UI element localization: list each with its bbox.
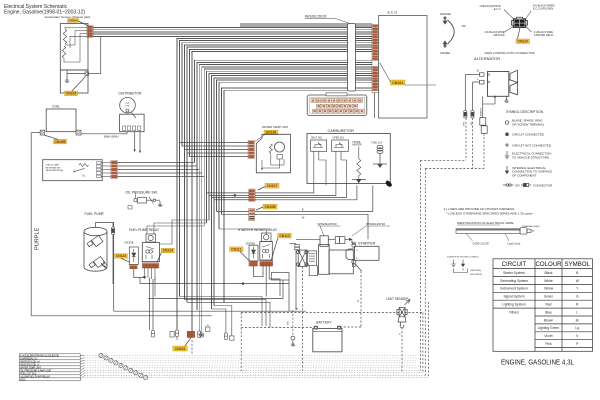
internal ground fuel cut [373,164,387,167]
wire alternator ground stub [494,96,496,104]
svg-text:E.C.U (GROUND): E.C.U (GROUND) [533,8,553,11]
battery box [313,329,342,352]
connector 30-pin (harness plug) [307,93,366,116]
wire sir drop a [265,266,267,297]
starter inhibit relay tab [262,233,272,242]
svg-text:B/W(+) B/W(-): B/W(+) B/W(-) [104,135,119,138]
shut solenoid box [311,140,327,151]
distributor cap circle [120,97,136,113]
wire left rail vertical [30,133,32,316]
svg-text:CHECK LAMP: CHECK LAMP [46,164,60,167]
svg-text:CN104: CN104 [69,18,78,22]
svg-text:IDENTIFICATION OF ELECTRICAL W: IDENTIFICATION OF ELECTRICAL WIRE [457,221,514,225]
terminal circle [86,73,88,75]
svg-text:GND: GND [286,321,288,326]
wire to fuse [296,238,320,240]
wire bottom run d [212,309,226,333]
wire wtu internal 2 [262,159,280,168]
svg-text:Others: Others [509,310,519,314]
wire coil to distributor [81,133,127,135]
wire distributor drop 2 [139,132,141,151]
connector label CN10B [54,139,67,144]
svg-text:WATER TEMP UNIT: WATER TEMP UNIT [20,366,42,369]
svg-text:G: G [576,295,579,299]
wire accel bottom tap [64,34,87,63]
svg-text:CIRCUIT NOT CONNECTED: CIRCUIT NOT CONNECTED [512,143,552,147]
svg-text:CIRCUIT CONNECTED: CIRCUIT CONNECTED [512,133,545,137]
svg-text:Accelerator Sensor (chassis pa: Accelerator Sensor (chassis part) [45,15,91,19]
terminal frame ground [443,41,447,47]
svg-text:FUEL PUMP: FUEL PUMP [85,212,105,216]
coil box [46,109,76,132]
symbol connector pair [503,184,514,186]
fusible link body [319,245,330,275]
wire pointer CN106 [255,133,268,142]
svg-text:E.C.U: E.C.U [494,8,501,11]
wire accel wiper h [75,30,87,32]
starter relay small box [307,251,316,266]
wire pointer [504,10,513,19]
resistor check lamp [79,164,89,167]
wires check lamp connector [101,162,111,164]
connector label CN107 [265,183,279,188]
wire pointer CN103 [72,77,86,92]
svg-text:W/S20L26100: W/S20L26100 [305,15,327,19]
wire connector to starter [345,238,352,240]
wire open sol drop 2 [340,151,342,160]
svg-text:BATTERY: BATTERY [316,320,332,324]
fuel pump motor elements [87,236,105,268]
svg-text:DIODE: DIODE [125,240,134,244]
wire open sol 2 drop [341,160,347,185]
wire carb fuel cut return [255,185,357,199]
svg-text:COLOUR: COLOUR [535,261,562,268]
rectifier / diode pack [297,250,309,267]
wire diode loop [134,269,145,278]
accelerator sensor box lower [60,70,88,93]
small box terminal 2 [230,336,234,340]
wire carb open sol return [255,185,336,195]
wire pointer CN107 [258,187,265,191]
connector W/S20L26100 (white inline) [348,24,356,92]
wire inner frame vertical [113,222,115,311]
internal ground choke heater [352,179,366,182]
svg-text:CN10B: CN10B [264,205,276,209]
svg-text:DISTRIBUTOR: DISTRIBUTOR [119,91,142,95]
wire dashed mid horizontal [241,312,423,314]
svg-text:OF COMPONENT: OF COMPONENT [512,174,537,178]
wire fuel pump top [95,222,97,227]
wire alternator B drop [464,75,466,111]
wire accel lower run [89,73,101,75]
wire diode pack bottom [309,266,317,276]
wire shut sol drop 2 [318,151,320,160]
svg-text:CN111: CN111 [231,247,241,251]
symbol internal connection [505,166,508,174]
svg-text:M6 SCREW: M6 SCREW [470,274,483,276]
pointer lead circuit [505,233,509,241]
wire accel wiper v [74,31,76,46]
terminal starter S [352,243,356,247]
alternator box [488,72,509,97]
resistor water temp [269,144,272,153]
wire dashed ground screw [292,310,294,336]
wire dashed horizontal b [425,168,484,170]
terminal circle alternator bottom [494,96,496,98]
wire pointer to connector [335,18,350,23]
water temp unit box [256,134,290,173]
ground alternator [504,96,508,102]
wire relay feed b [154,223,207,234]
oil pressure switch symbol [134,197,160,204]
wire starter area box right [295,244,297,310]
distributor pins [123,126,126,131]
svg-text:ENGINE: ENGINE [440,12,451,16]
svg-text:(GROUND): (GROUND) [470,270,481,272]
wire shut sol drop [313,151,315,185]
switch check lamp [74,168,85,171]
svg-text:OR SCREW TERMINAL: OR SCREW TERMINAL [512,123,545,127]
wire coil to left rail [31,132,40,134]
connector CN106 (orange pins) [248,141,254,159]
ground fuel pump [101,262,108,269]
wire pointer CN114 [157,253,161,262]
svg-text:ALTERNATOR: ALTERNATOR [474,56,500,61]
svg-text:Lighting System: Lighting System [502,303,526,307]
wire diode 2 loop [254,266,264,277]
connector small left [295,245,300,250]
terminal alternator B [480,73,485,77]
svg-text:1-ACCELERATOR(SW) & SOLENOID: 1-ACCELERATOR(SW) & SOLENOID [20,354,59,357]
fuel pump relay body [142,243,159,262]
svg-text:VIEW LOOKING INTO CONNECTOR: VIEW LOOKING INTO CONNECTOR [484,51,535,55]
wires fuel pump relay drops [144,268,146,276]
svg-text:WATER TEMP UNIT: WATER TEMP UNIT [262,125,289,129]
fuel pump cylinder [84,227,107,271]
oil pressure bulb [128,206,132,210]
svg-text:CN114: CN114 [163,249,173,253]
svg-text:COIL: COIL [52,104,60,108]
table circuit colour symbol [493,259,593,352]
wire alternator L drop [472,82,474,111]
connector inline b [340,237,345,244]
terminal engine ground [443,17,447,24]
wire alternator L [473,81,480,83]
svg-text:Lead Circuit: Lead Circuit [508,242,521,245]
wire sir drop b [269,266,280,296]
svg-text:Brown: Brown [544,318,554,322]
wire S terminal stub [351,239,353,243]
arc OR selector [448,20,455,44]
svg-text:CORD COLOR: CORD COLOR [473,242,489,245]
connector CN101 (ECU pin strip) [372,25,378,93]
wire distributor link [131,112,136,118]
wire alternator body drop [482,96,484,117]
water temp element [277,155,282,160]
connector label CN106 [264,130,278,135]
carburetor corner blob [386,180,393,187]
connector label CN115 [115,254,128,259]
connector check lamp (orange) [111,161,118,179]
svg-text:FRAME: FRAME [440,51,450,55]
svg-text:FUEL PUMP RELAY: FUEL PUMP RELAY [129,228,160,232]
svg-text:CN103: CN103 [175,347,186,351]
terminal alternator L [480,80,485,84]
svg-text:ILLUMI(FUEL PUMP RELAY): ILLUMI(FUEL PUMP RELAY) [20,375,50,378]
wire dashed alternator L down [472,118,474,169]
svg-text:OIL PRESSURE (LAMP) UNIT: OIL PRESSURE (LAMP) UNIT [20,369,52,372]
alternator pulley [510,70,518,95]
connector label CN104 [68,18,79,22]
terminal screw [200,333,204,337]
wire dashed unit sender down [401,328,403,374]
svg-text:STARTER: STARTER [358,242,376,246]
water temp sender circle [275,142,285,152]
wire alternator shaft [509,79,510,81]
svg-text:Signal System: Signal System [503,295,524,299]
svg-text:ENGINE, GASOLINE 4,3L: ENGINE, GASOLINE 4,3L [501,360,574,367]
wire dashed vertical b [424,169,426,376]
svg-text:FUEL CUT SOL: FUEL CUT SOL [20,373,37,375]
starter solenoid box [329,250,353,274]
connector CN107 (orange pins) [249,189,255,201]
wire sir feed [219,229,266,234]
svg-text:IGNITION COIL (+): IGNITION COIL (+) [20,361,40,363]
wire accel internal [64,28,66,30]
wire distributor drop 1 [134,132,136,150]
pointer cord color [466,233,473,241]
wire bottom run e [214,306,232,336]
svg-text:CN103: CN103 [66,92,77,96]
connector pill c [198,331,201,338]
svg-text:Lg: Lg [575,326,579,330]
svg-text:Red: Red [545,303,551,307]
distributor body box [120,114,145,132]
wire pointer CN110 [518,28,521,39]
legend dotted rows and circles [85,355,99,357]
wire bottom run a [180,297,263,327]
wire dashed vertical a [419,160,421,370]
svg-text:White: White [544,279,553,283]
distributor rotor circle [126,109,129,112]
terminal circle [488,81,490,83]
wire junction box drop 2 [282,280,284,299]
svg-text:TO VEHICLE STRUCTURE: TO VEHICLE STRUCTURE [512,155,549,159]
wire bottom run b [184,299,266,326]
svg-text:STARTER RELAY: STARTER RELAY [534,34,554,37]
wire carb shut sol return [255,185,314,193]
svg-text:2-) LINES ARE PROVIDE AS CHASS: 2-) LINES ARE PROVIDE AS CHASSIS HARNESS… [444,207,515,211]
symbol ground to vehicle [505,151,509,159]
connector CN108 (orange + striped) [249,209,255,221]
symbol circuit connected [506,133,509,136]
svg-text:HEATER: HEATER [352,144,361,147]
svg-text:METER(W) SW: METER(W) SW [46,167,61,169]
wire to ground [66,70,68,76]
wire pointer [526,27,532,33]
wire CN108 left B [217,210,249,212]
wire bus: two top lines [240,24,372,26]
ground screw symbols [451,260,467,273]
connector label CN103 [65,91,78,96]
wire pointer CN111 [240,252,250,262]
fuel pump relay tab [146,234,156,242]
wire CN108 B to carb [255,185,373,211]
wire pointer CN108 [256,207,263,210]
connector pill d [224,333,227,340]
wires CN107 [207,192,249,194]
connector pill b [176,330,179,337]
wire pointer CN104 [79,21,89,26]
diode symbol 2 [252,247,256,259]
svg-text:DIODE: DIODE [246,241,255,245]
legend table bottom left [19,354,80,381]
connector diode pins [130,265,138,269]
wire shut sol 2 drop [319,160,326,185]
svg-text:CN10B: CN10B [54,140,66,144]
connector label CN113 [278,233,292,238]
svg-text:Green: Green [544,295,553,299]
connector label CN101 [391,80,406,85]
svg-text:UNIT SENDER: UNIT SENDER [386,297,409,301]
svg-text:L: L [576,310,578,314]
battery terminal left [314,326,318,329]
wire bottom run c [187,302,270,327]
wire dashed vertical d [427,302,429,378]
wire pointer CN113 [271,238,278,261]
unit sender symbol [397,300,410,328]
starter inhibit relay body [260,242,273,261]
wire oil pressure stub [135,193,137,199]
svg-text:Pink: Pink [545,342,552,346]
svg-text:K): K) [83,175,86,178]
junction dot [242,283,244,285]
connector CN110 detail [511,17,527,27]
wire accel lower to connector [67,73,85,75]
connector starter inhibit relay pins [260,261,273,266]
connector pill a [152,331,155,338]
ground accel sensor [65,76,69,82]
wire pointer conn [352,226,366,236]
svg-text:CN113: CN113 [279,234,289,238]
wire dashed alternator conn down [483,133,485,168]
wire dashed battery left [241,327,313,329]
wire dashed starter B to battery [360,271,362,327]
wire accel pin4 v [69,36,71,48]
connector label CN114 [161,248,174,253]
svg-text:CN110: CN110 [518,39,528,43]
wire accel wiper [65,44,75,46]
wire fuel pump feed [96,221,114,223]
open solenoid box [332,140,349,151]
wire accel internal top [65,27,87,29]
battery top line [313,330,342,332]
symbol circuit not connected [505,143,509,147]
svg-text:E.C.U: E.C.U [388,11,398,15]
svg-text:Lighting Green: Lighting Green [538,326,560,330]
svg-text:TACHOMETER(W): TACHOMETER(W) [46,169,64,172]
svg-text:FUEL CUT: FUEL CUT [372,142,384,144]
wire dashed mid vertical [240,313,242,372]
svg-text:CONNECTOR: CONNECTOR [533,183,553,187]
svg-text:OIL: OIL [206,325,209,327]
wire dashed horizontal a [420,159,466,161]
svg-text:Violet: Violet [544,334,552,338]
svg-text:IGNITION COIL (-): IGNITION COIL (-) [20,364,39,366]
svg-text:GROUND: GROUND [493,34,504,37]
svg-text:CHARGE(ALT) L: CHARGE(ALT) L [20,357,38,360]
wire dashed vertical c [422,313,424,373]
svg-text:Instrument System: Instrument System [500,287,528,291]
small box terminal [206,327,210,331]
resistor choke heater [357,159,361,176]
connector label CN108 [263,204,277,209]
wire wtu internal [270,153,272,165]
diode fuel pump box [129,247,138,265]
wire starter area box top [290,243,297,245]
wire pointer CN103 bottom [185,337,191,346]
connector fuel pump relay pins [142,263,159,268]
svg-text:Starter System: Starter System [503,271,525,275]
svg-text:TERMINAL (END): TERMINAL (END) [522,225,540,228]
connector label CN103 bottom [173,346,188,351]
connector label CN110 [516,39,530,43]
svg-text:PURPLE: PURPLE [35,227,41,250]
connector alternator L pair [480,118,487,134]
wire accel pin4 [70,35,87,37]
wire inner frame bottom [114,310,306,312]
wire open sol drop [335,151,337,185]
svg-text:SHUT SOL: SHUT SOL [311,137,323,139]
battery terminal right [337,326,341,329]
wire carb choke return [255,185,347,197]
svg-text:ACC I: ACC I [20,378,26,381]
wire dashed diode pack down [302,267,304,372]
wire to fuse [112,222,114,227]
ground mid [291,340,295,346]
wire relay cross run a [140,283,289,285]
wire relay feed a [147,226,204,234]
legend tick lines [80,354,84,356]
wire identification drawing [456,228,535,234]
terminal circle [488,74,490,76]
wires water temp unit to bundle [180,142,249,144]
relay internals [262,245,270,259]
connector orange mid [187,331,194,337]
starter motor symbol [346,249,355,260]
connector diode 2 pins [249,261,258,266]
wire fuel pump drop [112,235,114,285]
fuse alternator B (fusible link) [464,111,467,119]
ECU box [379,16,427,119]
wire relay drop c [154,278,156,297]
terminal starter B [352,260,356,264]
wire CN108 W to starter fuse [255,214,368,239]
ground oil pressure switch [158,201,162,206]
resistor accel pot 2 [62,46,65,58]
wire ECU strip bottom stub [374,93,376,119]
connector inline a [335,237,339,244]
svg-text:CARBURETOR: CARBURETOR [328,129,355,133]
svg-text:SYMBOL: SYMBOL [565,261,591,268]
wire pointer fuse [320,226,324,236]
svg-text:OIL PRESSURE SW.: OIL PRESSURE SW. [126,191,158,195]
terminal coil negative [40,130,45,135]
svg-text:W/S20L26700: W/S20L26700 [318,222,337,226]
svg-text:SCREW FOR GROUND CONNECT: SCREW FOR GROUND CONNECT [447,257,480,259]
fuse alternator L (fusible link) [471,111,474,119]
wire alternator B [465,74,479,76]
